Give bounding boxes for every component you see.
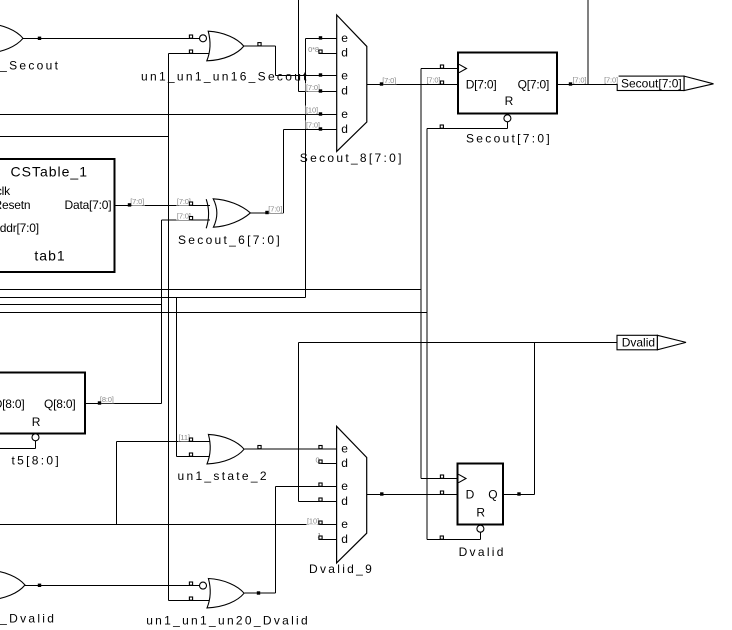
wire: XOR input b horizontal — [162, 219, 211, 221]
or-gate un1_state_2 — [207, 434, 244, 464]
wire: bottom-left gate output to OR20 bubble — [25, 585, 200, 587]
svg-text:Dvalid: Dvalid — [459, 545, 506, 559]
svg-text:[8:0]: [8:0] — [100, 395, 114, 404]
svg-text:d: d — [341, 122, 348, 136]
svg-text:un1_Dvalid: un1_Dvalid — [0, 612, 56, 626]
bus label [7:0] before port — [604, 75, 619, 84]
wire: state2 input a horizontal — [117, 441, 211, 443]
wire: mux1 d1 stub — [319, 53, 337, 55]
svg-text:[7:0]: [7:0] — [177, 197, 191, 206]
bus label [7:0] xor a — [176, 197, 191, 206]
svg-text:[10]: [10] — [307, 517, 319, 526]
wire: reset bus H4 y=312.5 — [0, 312, 427, 314]
svg-text:R: R — [476, 505, 485, 519]
bubble on un16 input a — [200, 35, 207, 42]
wire: mux1 d3 horizontal — [284, 129, 337, 131]
svg-text:d: d — [341, 46, 348, 60]
svg-text:Secout_6[7:0]: Secout_6[7:0] — [178, 233, 282, 247]
DFF2 clock triangle — [459, 474, 467, 482]
wire: DFF2 Q to feedback corner — [503, 494, 535, 496]
svg-text:R: R — [32, 415, 41, 429]
bus label [7:0] mux1 out — [382, 76, 397, 85]
wire: state2 output to mux2 e1 — [245, 448, 337, 450]
solid connection pins — [98, 36, 572, 595]
bus label [7:0] mux1 d2 — [306, 83, 321, 92]
svg-text:[7:0]: [7:0] — [268, 205, 282, 214]
wire: OR20 output vertical x=275.5 up — [275, 487, 277, 594]
bus label [7:0] Data out — [130, 197, 145, 206]
wire: long vertical net OR2b-OR20b x=168.5 — [168, 54, 170, 601]
mux1 output stub — [367, 84, 382, 86]
svg-text:d: d — [341, 456, 348, 470]
svg-text:[10]: [10] — [306, 106, 318, 115]
bus label 0*8 mux1 d1 — [308, 45, 320, 54]
svg-text:[7:0]: [7:0] — [427, 75, 441, 84]
wire: mux1 out to DFF1 D — [367, 84, 458, 86]
wire: mux2 e2 horizontal — [276, 486, 337, 488]
svg-text:Q[8:0]: Q[8:0] — [44, 397, 75, 411]
wire: t5 Q horizontal — [85, 403, 162, 405]
svg-text:R: R — [505, 94, 514, 108]
bus label [10] mux1 e3 — [306, 106, 319, 115]
wire: DFF1 reset jog horizontal — [427, 128, 508, 130]
svg-text:0*8: 0*8 — [308, 45, 319, 54]
flip-flop Secout[7:0] body — [458, 53, 557, 114]
wire: DFF2 clock stub — [421, 478, 458, 480]
wire: mux1 e3 bus line y=114.5 — [0, 114, 337, 116]
svg-text:D: D — [466, 488, 475, 502]
bus label [8:0] t5 Q — [99, 395, 114, 404]
bus label [7:0] mux1 d3 — [306, 120, 321, 129]
wire: left OR gate output to un16 bubble — [23, 38, 200, 40]
svg-text:Secout[7:0]: Secout[7:0] — [621, 76, 682, 90]
or-gate un1_un1_un20_Dvalid — [207, 579, 244, 608]
wire: Dvalid net vertical x=298.5 down to mux2 d2 — [298, 343, 300, 502]
svg-text:clk: clk — [0, 184, 11, 198]
svg-text:un1_state_2: un1_state_2 — [178, 469, 269, 483]
svg-text:[11]: [11] — [179, 433, 190, 442]
wire: DFF2 reset jog horizontal — [427, 539, 481, 541]
wire: DFF1 Q to Secout port — [557, 84, 618, 86]
flip-flop Dvalid body — [458, 464, 504, 525]
mux Dvalid_9 trapezoid — [337, 426, 367, 563]
wire: XOR output horizontal — [251, 212, 284, 214]
svg-text:un1_un1_un16_Secout: un1_un1_un16_Secout — [141, 70, 309, 84]
svg-text:[7:0]: [7:0] — [306, 83, 320, 92]
svg-text:Resetn: Resetn — [0, 198, 30, 212]
svg-text:un1_Secout: un1_Secout — [0, 59, 60, 73]
bus label [7:0] dff1 D — [426, 75, 441, 84]
wire: un16 OR output horizontal — [244, 45, 276, 47]
wire: mux2 d3 stub — [319, 539, 337, 541]
mux2 output stub — [367, 494, 382, 496]
svg-text:un1_un1_un20_Dvalid: un1_un1_un20_Dvalid — [146, 614, 310, 628]
bubble on un20 input a — [200, 582, 207, 589]
wire: clock vertical x=421 — [420, 69, 422, 479]
svg-text:Q: Q — [488, 488, 497, 502]
open connection pins — [189, 35, 443, 600]
wire: vertical x=161.5 XORb to t5 Q — [161, 220, 163, 404]
bus label [7:0] dff1 Q — [572, 75, 587, 84]
mux1 e d letters — [341, 31, 348, 136]
wire: clk bus H1 y=289.5 — [0, 289, 421, 291]
wire: mux2 d2 horizontal — [299, 501, 337, 503]
mux Secout_8 trapezoid — [337, 15, 367, 151]
wire: horizontal H2 y=297.5 — [0, 297, 306, 299]
wire: mux2 d1 stub — [319, 463, 337, 465]
DFF1 reset bubble — [504, 115, 511, 122]
or-gate bottom-left clipped (un1_Dvalid) — [0, 570, 25, 600]
block CSTable_1 tab1 — [0, 159, 115, 272]
wire: un16 OR input b horizontal — [169, 53, 210, 55]
wire: DFF1 reset bubble drop — [507, 122, 509, 129]
bus label 0 mux2 d1 — [315, 455, 321, 464]
wire: vertical x=176.5 H2 to state2 b — [176, 298, 178, 457]
wire: mux1 e1 input horizontal — [306, 38, 337, 40]
wire: Dvalid net horizontal y=342.5 — [299, 342, 618, 344]
wire: reset vertical x=427 — [426, 129, 428, 540]
bus label 1 mux2 d3 — [317, 531, 323, 540]
wire: DFF2 reset bubble drop — [480, 533, 482, 540]
DFF2 reset bubble — [477, 525, 484, 532]
svg-text:e: e — [341, 442, 348, 456]
bus label [7:0] xor b — [176, 212, 191, 221]
wire: state2 input a vertical x=116.5 — [116, 442, 118, 525]
wire: Data to XOR a — [115, 205, 211, 207]
wire: bus H3 y=304.5 — [0, 304, 162, 306]
wire: horizontal feed y=136.5 from left — [0, 136, 169, 138]
svg-text:Data[7:0]: Data[7:0] — [65, 198, 112, 212]
output port Secout[7:0] — [617, 76, 713, 90]
svg-text:Addr[7:0]: Addr[7:0] — [0, 221, 39, 235]
svg-text:[7:0]: [7:0] — [130, 197, 144, 206]
wire: DFF1 clock stub — [421, 68, 458, 70]
wire: un16 OR output vertical down — [275, 46, 277, 76]
wire: vertical from top x=298.5 to mux1 d2 — [298, 0, 300, 92]
wire: mux1 e2 input horizontal — [276, 75, 337, 77]
svg-text:e: e — [341, 31, 348, 45]
mux2 e d letters — [341, 442, 348, 547]
wire: OR20 output horizontal — [245, 592, 276, 594]
svg-text:D[7:0]: D[7:0] — [466, 77, 497, 91]
svg-text:[7:0]: [7:0] — [573, 75, 587, 84]
svg-text:[7:0]: [7:0] — [382, 76, 396, 85]
svg-text:Secout[7:0]: Secout[7:0] — [466, 131, 552, 145]
svg-text:Secout_8[7:0]: Secout_8[7:0] — [300, 151, 404, 165]
wire: XOR out vertical up to mux1 d3 — [283, 130, 285, 214]
svg-text:[7:0]: [7:0] — [177, 212, 191, 221]
wire: Secout feedback vertical x=588 to top — [587, 0, 589, 85]
t5 reset bubble — [32, 434, 39, 441]
wire: state2 input b stub — [177, 456, 210, 458]
or-gate un1_un1_un16_Secout — [207, 31, 244, 61]
junction after left OR output — [38, 37, 41, 40]
wire: t5 reset jog to left edge — [0, 448, 36, 450]
bus label [11] state2 a — [178, 433, 191, 442]
junction after bottom-left OR output — [38, 584, 41, 587]
output port Dvalid — [617, 335, 686, 350]
svg-text:Dvalid_9: Dvalid_9 — [309, 562, 374, 576]
svg-text:Q[7:0]: Q[7:0] — [518, 77, 549, 91]
svg-text:e: e — [341, 107, 348, 121]
svg-text:[7:0]: [7:0] — [604, 75, 618, 84]
wire: mux2 e3 bus line y=524.5 — [0, 524, 337, 526]
svg-text:[7:0]: [7:0] — [306, 121, 320, 130]
wire: t5 reset bubble drop — [35, 441, 37, 449]
wire: OR20 input b horizontal — [169, 600, 210, 602]
svg-text:e: e — [341, 517, 348, 531]
flip-flop t5[8:0] body clipped — [0, 373, 85, 434]
svg-text:e: e — [341, 68, 348, 82]
wire: mux1 e1 vertical x=305.5 — [305, 39, 307, 298]
bus width labels (gray with white bg) — [99, 45, 618, 540]
svg-text:D[8:0]: D[8:0] — [0, 397, 25, 411]
wire: mux2 out to DFF2 D — [367, 494, 458, 496]
or-gate left clipped (un1_Secout) — [0, 24, 23, 53]
svg-text:Dvalid: Dvalid — [622, 336, 655, 350]
svg-text:d: d — [341, 532, 348, 546]
xor-gate Secout_6 — [206, 199, 250, 229]
wire: mux1 d2 horizontal — [299, 91, 337, 93]
wire: Dvalid Q feedback vertical x=534.5 — [534, 343, 536, 495]
svg-text:e: e — [341, 479, 348, 493]
svg-text:t5[8:0]: t5[8:0] — [12, 453, 61, 467]
DFF1 clock triangle — [459, 64, 467, 72]
svg-text:d: d — [341, 84, 348, 98]
bus label [7:0] xor out — [268, 205, 283, 214]
svg-text:CSTable_1: CSTable_1 — [11, 163, 89, 179]
svg-text:d: d — [341, 494, 348, 508]
svg-text:tab1: tab1 — [34, 247, 65, 263]
bus label [10] mux2 e3 — [307, 516, 320, 525]
